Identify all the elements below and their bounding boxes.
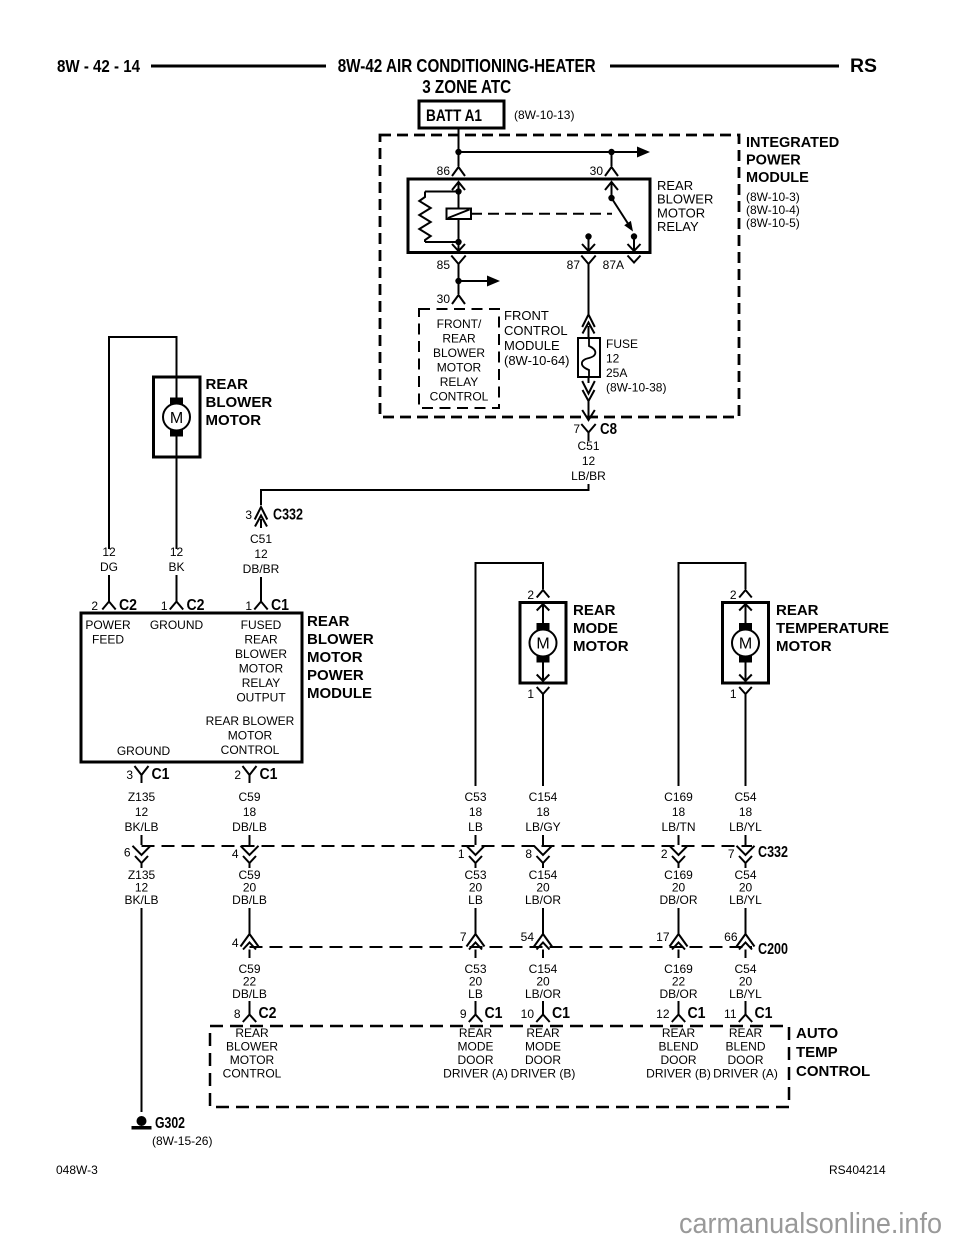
auto temp control boundary bbox=[210, 1026, 789, 1107]
svg-text:C1: C1 bbox=[688, 1005, 706, 1022]
C332 pin 4 bbox=[241, 846, 259, 868]
svg-text:(8W-10-4): (8W-10-4) bbox=[746, 203, 800, 217]
svg-text:1: 1 bbox=[161, 599, 168, 613]
svg-text:18: 18 bbox=[536, 805, 550, 819]
svg-text:8W-42 AIR CONDITIONING-HEATER: 8W-42 AIR CONDITIONING-HEATER bbox=[338, 56, 596, 76]
svg-text:C332: C332 bbox=[273, 507, 303, 524]
svg-text:BLOWER: BLOWER bbox=[226, 1040, 278, 1054]
svg-text:LB: LB bbox=[468, 987, 483, 1001]
relay pin 85 connector bbox=[451, 256, 465, 272]
svg-text:REAR: REAR bbox=[662, 1026, 696, 1040]
arrow battery feed continues bbox=[637, 147, 650, 158]
svg-text:LB/OR: LB/OR bbox=[525, 987, 561, 1001]
motor pin 2 connector mode bbox=[537, 590, 550, 598]
module pin 1 C2 connector bbox=[170, 602, 183, 610]
motor M1 rear blower motor bbox=[154, 377, 201, 457]
svg-text:MOTOR: MOTOR bbox=[228, 729, 273, 743]
svg-text:(8W-15-26): (8W-15-26) bbox=[152, 1134, 212, 1148]
svg-text:DOOR: DOOR bbox=[661, 1053, 697, 1067]
wire label C154 18 LB/GY bbox=[525, 790, 560, 834]
connector C200 dashed line bbox=[250, 946, 753, 948]
motor pin 1 connector mode bbox=[537, 687, 550, 701]
svg-text:8: 8 bbox=[525, 847, 532, 861]
wire DG stub to pin bbox=[108, 575, 110, 602]
svg-text:MODULE: MODULE bbox=[307, 685, 372, 702]
svg-text:C59: C59 bbox=[238, 790, 260, 804]
svg-text:C154: C154 bbox=[529, 790, 558, 804]
svg-text:1: 1 bbox=[458, 847, 465, 861]
svg-text:C332: C332 bbox=[758, 844, 788, 861]
svg-text:2: 2 bbox=[730, 588, 737, 602]
wire label 12 BK bbox=[168, 545, 184, 574]
svg-text:1: 1 bbox=[730, 687, 737, 701]
svg-text:9: 9 bbox=[460, 1007, 467, 1021]
svg-text:BK: BK bbox=[168, 560, 184, 574]
svg-text:REAR: REAR bbox=[442, 332, 476, 346]
junction coil bottom bbox=[455, 239, 461, 245]
rear blower motor power module title bbox=[307, 613, 374, 702]
svg-text:MOTOR: MOTOR bbox=[573, 638, 629, 655]
resistor relay suppression bbox=[419, 192, 430, 243]
relay rear blower motor relay box bbox=[408, 179, 650, 253]
ground G302 symbol bbox=[132, 1116, 152, 1130]
svg-text:DB/LB: DB/LB bbox=[232, 893, 267, 907]
svg-text:LB/BR: LB/BR bbox=[571, 469, 606, 483]
wire control branch bbox=[459, 280, 491, 282]
wire label C51 12 DB/BR bbox=[243, 532, 280, 576]
wire C53 stub to auto temp control bbox=[475, 1001, 477, 1006]
svg-text:LB: LB bbox=[468, 893, 483, 907]
svg-text:POWER: POWER bbox=[85, 618, 131, 632]
wire C54 stub to auto temp control bbox=[745, 1001, 747, 1006]
svg-text:DOOR: DOOR bbox=[728, 1053, 764, 1067]
svg-text:12: 12 bbox=[135, 805, 149, 819]
auto temp control pin 8 C2 bbox=[243, 1001, 256, 1022]
svg-text:DB/BR: DB/BR bbox=[243, 562, 280, 576]
pin label 8 C2 bbox=[234, 1005, 277, 1022]
svg-text:C169: C169 bbox=[664, 790, 693, 804]
svg-text:7: 7 bbox=[460, 930, 467, 944]
connector C332 pin 3 bbox=[255, 507, 268, 528]
svg-text:CONTROL: CONTROL bbox=[504, 323, 568, 338]
arrow control branch continues bbox=[487, 276, 500, 287]
relay pin 86 connector bbox=[452, 167, 465, 176]
wire label C154 20 LB/OR lower bbox=[525, 962, 561, 1001]
svg-text:TEMP: TEMP bbox=[796, 1044, 838, 1061]
svg-text:54: 54 bbox=[521, 930, 535, 944]
wire label 12 DG bbox=[100, 545, 118, 574]
svg-text:DOOR: DOOR bbox=[458, 1053, 494, 1067]
wire label C154 20 LB/OR bbox=[525, 868, 561, 907]
C332 pin 7 bbox=[737, 846, 755, 868]
C200 pin 54 bbox=[534, 927, 552, 958]
pin label 9 C1 bbox=[460, 1005, 503, 1022]
wire C169 stub to C200 bbox=[678, 908, 680, 927]
svg-text:18: 18 bbox=[243, 805, 257, 819]
wire contact 87 to pin bbox=[582, 237, 595, 252]
svg-text:12: 12 bbox=[102, 545, 116, 559]
svg-text:C51: C51 bbox=[250, 532, 272, 546]
svg-text:17: 17 bbox=[656, 930, 670, 944]
svg-text:BLOWER: BLOWER bbox=[307, 631, 374, 648]
pin function rear mode door driver B bbox=[511, 1026, 576, 1081]
C332 pin 2 bbox=[670, 846, 688, 868]
svg-text:GROUND: GROUND bbox=[150, 618, 204, 632]
svg-text:BLOWER: BLOWER bbox=[235, 647, 287, 661]
svg-text:2: 2 bbox=[91, 599, 98, 613]
svg-text:C2: C2 bbox=[119, 597, 137, 614]
svg-text:DB/LB: DB/LB bbox=[232, 987, 267, 1001]
svg-text:INTEGRATED: INTEGRATED bbox=[746, 135, 839, 151]
svg-text:C54: C54 bbox=[734, 790, 756, 804]
integrated power module boundary bbox=[380, 135, 739, 417]
svg-text:REAR BLOWER: REAR BLOWER bbox=[206, 714, 295, 728]
wire label C53 20 LB lower bbox=[464, 962, 486, 1001]
svg-text:DRIVER (B): DRIVER (B) bbox=[511, 1067, 576, 1081]
wire label Z135 12 BK/LB lower bbox=[124, 868, 158, 907]
junction pin 30 feed bbox=[608, 149, 614, 155]
svg-text:MOTOR: MOTOR bbox=[230, 1053, 275, 1067]
svg-text:4: 4 bbox=[232, 847, 239, 861]
svg-text:MODULE: MODULE bbox=[504, 338, 560, 353]
header rule right bbox=[610, 65, 839, 68]
svg-text:CONTROL: CONTROL bbox=[796, 1063, 870, 1080]
svg-text:RELAY: RELAY bbox=[242, 676, 280, 690]
svg-text:BATT A1: BATT A1 bbox=[426, 106, 482, 125]
svg-text:RELAY: RELAY bbox=[657, 219, 699, 234]
svg-text:RS: RS bbox=[850, 56, 877, 77]
svg-text:25A: 25A bbox=[606, 366, 627, 380]
svg-text:G302: G302 bbox=[155, 1115, 185, 1132]
relay arrow pin 86 exits to 85 bbox=[452, 244, 465, 251]
pin function rear blend door driver A bbox=[713, 1026, 778, 1081]
front control module boundary bbox=[419, 309, 499, 408]
svg-text:LB/YL: LB/YL bbox=[729, 987, 762, 1001]
svg-text:12: 12 bbox=[582, 454, 596, 468]
svg-text:MOTOR: MOTOR bbox=[776, 638, 832, 655]
relay name label bbox=[657, 178, 713, 234]
module pin 1 C1 connector bbox=[254, 602, 267, 610]
junction switch common bbox=[608, 195, 614, 201]
svg-text:11: 11 bbox=[724, 1007, 737, 1021]
svg-text:66: 66 bbox=[724, 930, 738, 944]
svg-text:REAR: REAR bbox=[244, 633, 278, 647]
wire C154 stub to auto temp control bbox=[542, 1001, 544, 1006]
svg-text:10: 10 bbox=[521, 1007, 535, 1021]
wire C53 stub to C200 bbox=[475, 908, 477, 927]
wire battery feed bus bbox=[459, 151, 639, 153]
svg-text:LB: LB bbox=[468, 820, 483, 834]
svg-text:LB/YL: LB/YL bbox=[729, 893, 762, 907]
relay pin 87A connector unused bbox=[628, 256, 641, 263]
wire resistor bottom to coil bottom bbox=[425, 241, 459, 243]
svg-text:12: 12 bbox=[656, 1007, 670, 1021]
C332 pin 6 bbox=[133, 846, 151, 868]
svg-text:3: 3 bbox=[126, 768, 133, 782]
svg-text:C1: C1 bbox=[552, 1005, 570, 1022]
integrated power module references bbox=[746, 190, 800, 230]
svg-text:(8W-10-5): (8W-10-5) bbox=[746, 216, 800, 230]
wire label Z135 12 BK/LB bbox=[124, 790, 158, 834]
svg-text:BK/LB: BK/LB bbox=[124, 893, 158, 907]
fuse 12 25A bbox=[578, 338, 600, 377]
junction contact 87 bbox=[585, 233, 591, 239]
pin label 3 C1 bbox=[126, 766, 169, 783]
relay switch common pin 30 internal bbox=[605, 182, 618, 198]
wire C54 stub to C200 bbox=[745, 908, 747, 927]
svg-text:4: 4 bbox=[232, 936, 239, 950]
rear blower motor label bbox=[206, 376, 273, 429]
svg-text:REAR: REAR bbox=[729, 1026, 763, 1040]
svg-text:RELAY: RELAY bbox=[440, 375, 478, 389]
wire DB/BR to module pin 1 bbox=[260, 577, 262, 602]
svg-text:MOTOR: MOTOR bbox=[437, 361, 482, 375]
wire BK stub to pin bbox=[176, 575, 178, 602]
rear temperature motor label bbox=[776, 602, 889, 655]
pin function power feed bbox=[85, 618, 131, 647]
svg-text:CONTROL: CONTROL bbox=[221, 743, 280, 757]
wire BATT A1 to relay pin 86 bbox=[458, 128, 460, 166]
pin label 1 C2 bbox=[161, 597, 205, 614]
wire pin 87 to fuse connector bbox=[588, 269, 590, 315]
C200 pin 7 bbox=[467, 927, 485, 958]
svg-text:6: 6 bbox=[124, 846, 131, 860]
wire C169 stub to C332 bbox=[678, 835, 680, 845]
svg-text:POWER: POWER bbox=[746, 153, 801, 169]
rear blower motor power module box bbox=[81, 613, 302, 762]
svg-text:FRONT/: FRONT/ bbox=[437, 317, 482, 331]
svg-text:GROUND: GROUND bbox=[117, 744, 171, 758]
svg-text:7: 7 bbox=[573, 422, 580, 436]
svg-text:8W - 42 - 14: 8W - 42 - 14 bbox=[57, 56, 140, 76]
svg-text:DRIVER (B): DRIVER (B) bbox=[646, 1067, 711, 1081]
junction coil top bbox=[455, 188, 461, 194]
pin label 1 C1 bbox=[245, 597, 289, 614]
svg-text:8: 8 bbox=[234, 1007, 241, 1021]
junction contact 87A bbox=[631, 233, 637, 239]
battery feed BATT A1 bbox=[419, 101, 504, 128]
svg-text:30: 30 bbox=[437, 292, 451, 306]
auto temp control title bbox=[796, 1025, 870, 1080]
svg-text:LB/OR: LB/OR bbox=[525, 893, 561, 907]
svg-text:(8W-10-64): (8W-10-64) bbox=[504, 353, 570, 368]
wire Z135 to ground bbox=[141, 908, 143, 1112]
header rule left bbox=[151, 65, 326, 68]
svg-text:87A: 87A bbox=[603, 258, 624, 272]
wire C54 stub to C332 bbox=[745, 835, 747, 845]
wire label C53 20 LB bbox=[464, 868, 486, 907]
pin label 12 C1 bbox=[656, 1005, 705, 1022]
svg-text:carmanualsonline.info: carmanualsonline.info bbox=[679, 1208, 942, 1240]
svg-text:MODE: MODE bbox=[573, 620, 618, 637]
svg-text:MODE: MODE bbox=[525, 1040, 561, 1054]
svg-text:2: 2 bbox=[234, 768, 241, 782]
svg-text:REAR: REAR bbox=[776, 602, 819, 619]
C332 pin 1 bbox=[467, 846, 485, 868]
svg-text:LB/YL: LB/YL bbox=[729, 820, 762, 834]
wire rear mode motor loop bbox=[475, 562, 545, 786]
C200 pin 4 bbox=[241, 927, 259, 958]
C332 pin 8 bbox=[534, 846, 552, 868]
svg-text:1: 1 bbox=[245, 599, 252, 613]
svg-text:FUSED: FUSED bbox=[241, 618, 282, 632]
svg-text:7: 7 bbox=[728, 847, 735, 861]
svg-text:BLEND: BLEND bbox=[725, 1040, 765, 1054]
C200 pin 17 bbox=[670, 927, 688, 958]
svg-text:AUTO: AUTO bbox=[796, 1025, 839, 1042]
wire label C169 22 DB/OR bbox=[659, 962, 697, 1001]
wire power feed loop to motor bbox=[109, 336, 177, 377]
svg-text:DB/OR: DB/OR bbox=[659, 987, 697, 1001]
relay coil symbol bbox=[447, 209, 472, 220]
svg-text:12: 12 bbox=[606, 352, 620, 366]
svg-text:MOTOR: MOTOR bbox=[307, 649, 363, 666]
svg-text:MOTOR: MOTOR bbox=[239, 662, 284, 676]
pin label 11 C1 bbox=[724, 1005, 773, 1022]
svg-text:REAR: REAR bbox=[459, 1026, 493, 1040]
wire Z135 stub to C332 bbox=[141, 835, 143, 845]
svg-text:LB/GY: LB/GY bbox=[525, 820, 560, 834]
svg-text:C1: C1 bbox=[485, 1005, 503, 1022]
front control module name bbox=[504, 308, 570, 368]
integrated power module title bbox=[746, 135, 839, 186]
svg-text:1: 1 bbox=[527, 687, 534, 701]
wire label C54 20 LB/YL bbox=[729, 868, 762, 907]
wire C51 from C8 to C332 bbox=[261, 437, 590, 505]
svg-text:BK/LB: BK/LB bbox=[124, 820, 158, 834]
wire pin 85 to front control module bbox=[458, 269, 460, 295]
wire label C51 12 LB/BR bbox=[571, 439, 606, 483]
svg-text:(8W-10-13): (8W-10-13) bbox=[514, 108, 574, 122]
module pin 2 C2 connector bbox=[102, 602, 115, 610]
svg-text:REAR: REAR bbox=[526, 1026, 560, 1040]
wire C53 stub to C332 bbox=[475, 835, 477, 845]
wire label C59 20 DB/LB bbox=[232, 868, 267, 907]
svg-text:TEMPERATURE: TEMPERATURE bbox=[776, 620, 889, 637]
wire BK ground down bbox=[176, 457, 178, 549]
svg-text:FUSE: FUSE bbox=[606, 337, 638, 351]
svg-text:30: 30 bbox=[590, 164, 604, 178]
junction battery feed bbox=[455, 149, 461, 155]
wire label C169 20 DB/OR bbox=[659, 868, 697, 907]
svg-text:M: M bbox=[536, 636, 549, 653]
svg-text:MODE: MODE bbox=[458, 1040, 494, 1054]
svg-text:CONTROL: CONTROL bbox=[223, 1067, 282, 1081]
junction relay control branch bbox=[455, 278, 461, 284]
wire label C59 18 DB/LB bbox=[232, 790, 267, 834]
wire rear temperature motor loop bbox=[678, 562, 747, 786]
wire label C169 18 LB/TN bbox=[661, 790, 695, 834]
wire contact 87A to pin bbox=[628, 237, 641, 252]
svg-text:REAR: REAR bbox=[235, 1026, 269, 1040]
svg-text:MODULE: MODULE bbox=[746, 170, 809, 186]
svg-text:M: M bbox=[170, 410, 183, 427]
svg-text:DRIVER (A): DRIVER (A) bbox=[443, 1067, 508, 1081]
module pin 3 C1 connector bbox=[135, 766, 149, 783]
svg-text:POWER: POWER bbox=[307, 667, 364, 684]
auto temp control pin 9 C1 bbox=[469, 1001, 482, 1022]
pin function rear blend door driver B bbox=[646, 1026, 711, 1081]
pin label 2 C2 bbox=[91, 597, 137, 614]
auto temp control pin 11 C1 bbox=[739, 1001, 752, 1022]
svg-text:FRONT: FRONT bbox=[504, 308, 549, 323]
svg-text:LB/TN: LB/TN bbox=[661, 820, 695, 834]
wire coil top to resistor bbox=[425, 191, 459, 193]
svg-text:DOOR: DOOR bbox=[525, 1053, 561, 1067]
svg-text:C1: C1 bbox=[152, 766, 170, 783]
wire mode motor pin 1 down bbox=[542, 698, 544, 786]
motor M3 rear temperature motor bbox=[723, 603, 769, 684]
svg-text:C2: C2 bbox=[187, 597, 205, 614]
relay coil wire pin 86 internal bbox=[452, 182, 465, 251]
svg-text:C200: C200 bbox=[758, 941, 788, 958]
svg-text:048W-3: 048W-3 bbox=[56, 1163, 98, 1177]
wire C59 stub to auto temp control bbox=[249, 1001, 251, 1006]
auto temp control pin 12 C1 bbox=[672, 1001, 685, 1022]
relay pin 30 connector bbox=[605, 167, 618, 176]
pin function rear blower motor control bbox=[206, 714, 295, 757]
svg-text:(8W-10-3): (8W-10-3) bbox=[746, 190, 800, 204]
svg-text:C8: C8 bbox=[600, 421, 617, 438]
svg-text:C1: C1 bbox=[271, 597, 289, 614]
pin label 2 C1 bbox=[234, 766, 277, 783]
C200 pin 66 bbox=[737, 927, 755, 958]
wire C59 stub to C332 bbox=[249, 835, 251, 845]
wire DG power feed down bbox=[108, 336, 110, 549]
svg-text:BLOWER: BLOWER bbox=[433, 346, 485, 360]
svg-text:2: 2 bbox=[661, 847, 668, 861]
svg-text:87: 87 bbox=[567, 258, 581, 272]
svg-text:RS404214: RS404214 bbox=[829, 1163, 886, 1177]
svg-text:BLOWER: BLOWER bbox=[206, 394, 273, 411]
svg-text:M: M bbox=[739, 636, 752, 653]
wire label C54 18 LB/YL bbox=[729, 790, 762, 834]
svg-text:C1: C1 bbox=[260, 766, 278, 783]
svg-text:3 ZONE ATC: 3 ZONE ATC bbox=[422, 77, 511, 97]
wire feed to relay pin 30 bbox=[611, 152, 613, 166]
wire label C59 22 DB/LB bbox=[232, 962, 267, 1001]
svg-text:18: 18 bbox=[739, 805, 753, 819]
svg-text:DB/OR: DB/OR bbox=[659, 893, 697, 907]
rear mode motor label bbox=[573, 602, 629, 655]
svg-text:MOTOR: MOTOR bbox=[206, 412, 262, 429]
pin function rear mode door driver A bbox=[443, 1026, 508, 1081]
svg-text:C53: C53 bbox=[464, 790, 486, 804]
svg-text:BLEND: BLEND bbox=[658, 1040, 698, 1054]
svg-text:REAR: REAR bbox=[573, 602, 616, 619]
inline connector fuse top bbox=[582, 315, 595, 339]
svg-text:85: 85 bbox=[437, 258, 451, 272]
svg-text:CONTROL: CONTROL bbox=[430, 390, 489, 404]
svg-text:C1: C1 bbox=[755, 1005, 773, 1022]
arrow exits integrated power module bbox=[582, 410, 595, 420]
svg-text:C51: C51 bbox=[577, 439, 599, 453]
inline connector fuse bottom bbox=[582, 377, 595, 412]
wire label C54 20 LB/YL lower bbox=[729, 962, 762, 1001]
svg-text:REAR: REAR bbox=[206, 376, 249, 393]
connector C332 dashed line bbox=[142, 845, 753, 847]
motor pin 2 connector temperature bbox=[739, 590, 752, 598]
svg-text:(8W-10-38): (8W-10-38) bbox=[606, 381, 666, 395]
svg-text:FEED: FEED bbox=[92, 633, 124, 647]
wire temperature motor pin 1 down bbox=[745, 698, 747, 786]
motor M2 rear mode motor bbox=[520, 603, 566, 684]
svg-text:2: 2 bbox=[527, 588, 534, 602]
wire C154 stub to C332 bbox=[542, 835, 544, 845]
relay switch blade bbox=[612, 198, 637, 234]
relay pin 87 connector bbox=[581, 256, 595, 272]
svg-text:3: 3 bbox=[245, 508, 252, 522]
